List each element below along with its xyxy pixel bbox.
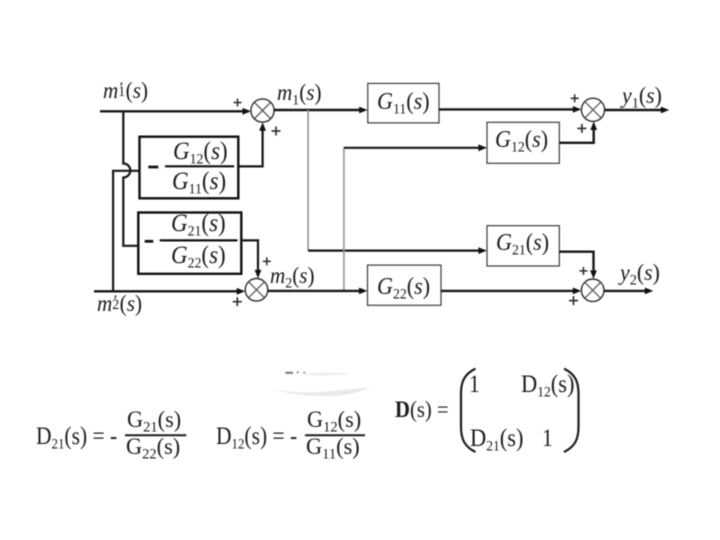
plus sign at S4 upper-left: [579, 267, 587, 275]
label G21(s) in block: [496, 231, 549, 259]
gray branch from m1 down to G21 input: [307, 110, 309, 251]
arrow into S3 bottom: [590, 122, 597, 131]
wire into G12: [344, 147, 480, 149]
fraction bar eq D12: [305, 434, 365, 436]
plus sign at S4 lower-left: [569, 296, 578, 305]
wire y2 output: [604, 290, 647, 292]
arrow into G12: [478, 144, 487, 151]
arrow into G21: [478, 247, 487, 254]
equation 1 numerator G21(s): [127, 408, 181, 436]
matrix left bracket: [461, 369, 476, 452]
plus sign at S3 upper-left: [571, 94, 579, 102]
arrow into S4 top: [590, 270, 597, 279]
process block G12: [487, 122, 559, 163]
process block G11: [368, 83, 439, 123]
process block G22: [368, 265, 442, 305]
arrow y2 output: [645, 288, 654, 295]
equation 1 denominator G22(s): [126, 435, 180, 463]
wire m'2 riser up to decoupler D12 input: [113, 171, 139, 291]
wire G12 output up into S3 bottom: [559, 128, 593, 143]
arrow into summing junction S1 left: [243, 108, 252, 115]
decoupler block D21 (-G21/G22): [138, 213, 241, 274]
label denominator G11(s) in decoupler D12: [172, 169, 226, 198]
matrix entry 1 (row1): [469, 372, 480, 397]
label D(s) =: [395, 398, 449, 421]
label denominator G22(s) in decoupler D21: [171, 243, 226, 272]
wire D12 block output to S1 bottom: [238, 129, 262, 166]
summing junction S4 (y2): [581, 279, 604, 302]
plus sign at S2 lower-left: [233, 297, 242, 306]
wire G22 output to S4: [441, 290, 575, 292]
matrix entry 1 (row2): [542, 426, 553, 451]
plus sign at S1 lower-right: [272, 127, 281, 136]
label y2(s): [620, 261, 660, 289]
arrow into S4 left: [573, 288, 582, 295]
wire y1 output: [605, 109, 663, 111]
wire G21 output down into S4 top: [559, 252, 593, 272]
process block G21: [487, 226, 559, 266]
wire m1 from S1 to G11: [274, 109, 362, 111]
arrow into S2 top: [255, 270, 262, 279]
label m'2(s): [97, 292, 142, 315]
wire m'2 input horizontal: [94, 290, 238, 292]
summing junction S1: [251, 99, 274, 122]
matrix entry D21(s): [470, 426, 524, 455]
arrow into S1 bottom: [259, 122, 266, 131]
label m2(s): [270, 264, 315, 292]
wire m'1 input horizontal: [100, 110, 244, 112]
label m1(s): [277, 81, 322, 109]
summing junction S3 (y1): [581, 98, 604, 121]
matrix right bracket: [564, 369, 579, 452]
faint smudge artifacts: [274, 372, 370, 396]
decoupler block D12 (-G12/G11): [140, 137, 239, 199]
arrow into summing junction S2 left: [237, 288, 246, 295]
label G22(s) in block: [377, 275, 430, 303]
arrow into G22: [359, 288, 368, 295]
label G11(s) in block: [377, 90, 430, 118]
equation D21(s) = -: [36, 424, 117, 453]
minus sign in D12 block: [148, 166, 158, 169]
arrow into S3 left: [573, 106, 582, 113]
label y1(s): [622, 84, 662, 112]
gray branch from m2 up to G12 input: [343, 148, 345, 291]
label numerator G21(s) in decoupler D21: [171, 211, 226, 240]
fraction bar in D12 block: [165, 165, 234, 167]
fraction bar in D21 block: [160, 239, 238, 241]
equation 2 denominator G11(s): [306, 435, 360, 463]
equation 2 numerator G12(s): [307, 408, 361, 436]
plus sign at S2 upper-right: [263, 257, 271, 265]
wire G11 output to S3: [439, 108, 575, 110]
summing junction S2: [245, 279, 268, 302]
wire m2 from S2 to G22: [268, 290, 361, 292]
label numerator G12(s) in decoupler D12: [173, 139, 228, 168]
plus sign at S3 lower-left: [577, 124, 586, 133]
label m'1(s): [103, 79, 148, 102]
fraction bar eq D21: [125, 434, 186, 436]
arrow into G11: [359, 107, 368, 114]
wire into G21: [308, 250, 480, 252]
label G12(s) in block: [495, 128, 548, 156]
matrix entry D12(s): [521, 372, 575, 401]
plus sign at S1 upper-left: [234, 99, 242, 107]
minus sign in D21 block: [145, 240, 154, 243]
wire D21 block output to S2 top: [241, 240, 258, 271]
wire branch from m'1 down with hop over crossing wire: [123, 111, 138, 246]
equation D12(s) = -: [216, 424, 297, 453]
arrow y1 output: [661, 107, 670, 114]
